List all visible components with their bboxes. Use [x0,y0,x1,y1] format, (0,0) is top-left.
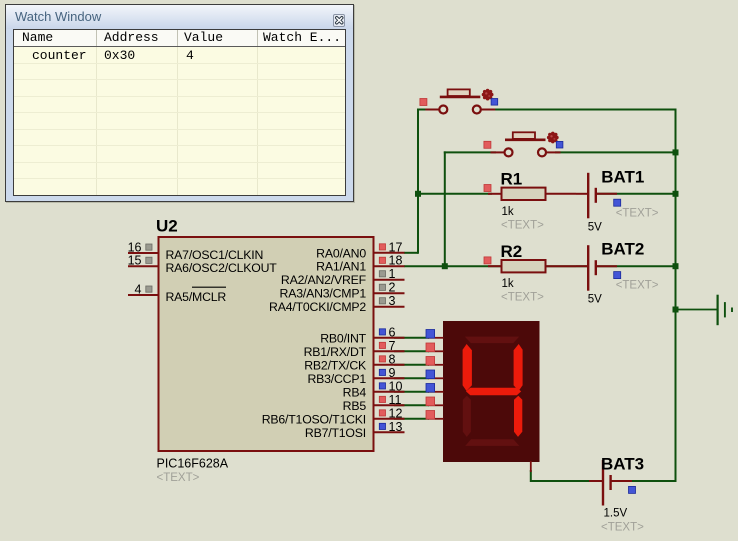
pin 2 RA3/AN3/CMP1 stub [373,292,405,294]
segment A (unlit) [465,337,519,344]
svg-text:3: 3 [389,294,396,308]
resistor R2 body [502,260,546,272]
wire R1 row horizontal [418,193,492,195]
svg-text:<TEXT>: <TEXT> [501,219,544,231]
wire pin18 to R2 row horizontal [404,265,588,267]
svg-text:2: 2 [389,281,396,295]
pin 12 RB6/T1OSO/T1CKI stub [373,418,405,420]
body column lines [96,47,97,195]
pin 11 RB5 stub [373,404,405,406]
push button SW1 left terminal [439,106,447,114]
segment E (unlit) [463,396,471,437]
resistor R1 state square [484,185,491,192]
svg-text:<TEXT>: <TEXT> [157,472,200,484]
pin 7 RB1/RX/DT stub [373,350,405,352]
pin 16 state indicator [146,244,152,250]
push button SW1 actuator [482,89,494,101]
pin 9 RB3/CCP1 stub [373,377,405,379]
pin 17 RA0/AN0 stub [373,252,405,254]
pin 15 state indicator [146,257,152,263]
svg-text:1k: 1k [502,278,514,290]
wire RB6 to display segment pin [394,418,429,420]
push button SW2 cap [513,132,535,139]
wire button1 right to trunk [490,109,677,111]
svg-text:RA0/AN0: RA0/AN0 [316,246,366,260]
push button SW2 contact bar [505,139,546,142]
svg-text:BAT2: BAT2 [601,240,644,259]
battery BAT2 long plate [587,245,589,291]
resistor R2 state square [484,257,491,264]
watch window dialog [5,4,354,202]
push button SW2 left stub [491,151,505,153]
row separator lines [14,63,345,64]
node junction at R1 row / pin17 riser [415,191,421,197]
svg-text:<TEXT>: <TEXT> [501,292,544,304]
svg-text:RA3/AN3/CMP1: RA3/AN3/CMP1 [280,287,367,301]
pin 6 state indicator [379,329,385,335]
battery BAT3 right lead [611,480,632,482]
table header row [14,30,345,47]
node junction trunk/BAT2 row [673,263,679,269]
battery BAT1 state square [614,199,621,206]
svg-text:4: 4 [135,283,142,297]
svg-text:PIC16F628A: PIC16F628A [157,457,229,471]
push button SW1 right terminal [473,106,481,114]
wire RB2 to display segment pin [394,364,429,366]
svg-text:17: 17 [389,240,403,254]
wire right trunk vertical [675,109,677,483]
pin 16 RA7/OSC1/CLKIN stub [128,252,158,254]
svg-text:RA4/T0CKI/CMP2: RA4/T0CKI/CMP2 [269,300,366,314]
svg-text:RB3/CCP1: RB3/CCP1 [307,372,366,386]
svg-text:RB6/T1OSO/T1CKI: RB6/T1OSO/T1CKI [262,412,366,426]
MCLR overline [192,286,226,288]
svg-text:RB7/T1OSI: RB7/T1OSI [305,426,366,440]
svg-text:<TEXT>: <TEXT> [616,280,659,292]
ground symbol (rotated) [718,295,732,326]
battery BAT2 left lead [576,265,588,267]
svg-text:RB0/INT: RB0/INT [320,331,366,345]
battery BAT3 left lead [589,480,603,482]
wire BAT1 to trunk [597,193,677,195]
svg-text:5V: 5V [588,221,602,233]
wire RB4 to display segment pin [394,391,429,393]
svg-text:RB4: RB4 [343,385,367,399]
battery BAT2 right lead [596,265,617,267]
push button SW2 right stub [546,151,561,153]
pin 8 state indicator [379,356,385,362]
wire ground branch [676,309,717,311]
push button 1 input state square [420,99,427,106]
resistor R2 left lead [488,265,502,267]
svg-text:RB5: RB5 [343,399,367,413]
battery BAT1 left lead [576,193,588,195]
wire RB3 to display segment pin [394,377,429,379]
pin 10 RB4 stub [373,391,405,393]
svg-text:R1: R1 [501,170,523,189]
svg-text:6: 6 [389,325,396,339]
wire RB5 to display segment pin [394,404,429,406]
svg-text:RB2/TX/CK: RB2/TX/CK [304,358,367,372]
battery BAT1 right lead [596,193,617,195]
wire display bottom pin to BAT3 row [530,470,532,482]
7-segment display body [443,321,540,462]
svg-text:13: 13 [389,420,403,434]
push button SW2 actuator [547,132,559,144]
push button SW1 cap [448,89,470,96]
svg-text:15: 15 [128,254,142,268]
watch window table [13,29,346,196]
node junction trunk/button2 row [673,149,679,155]
svg-text:RA6/OSC2/CLKOUT: RA6/OSC2/CLKOUT [166,261,278,275]
battery BAT3 state square [629,486,636,493]
svg-text:1k: 1k [502,206,514,218]
pin 13 state indicator [379,423,385,429]
pin 13 RB7/T1OSI stub [373,431,405,433]
pin 4 RA5/MCLR stub [128,294,158,296]
pin 10 state indicator [379,383,385,389]
pin 17 state indicator [379,244,385,250]
pin 8 RB2/TX/CK stub [373,364,405,366]
battery BAT1 long plate [587,173,589,219]
pin 4 state indicator [146,286,152,292]
wire pin17 to button1 left vertical [404,252,418,254]
segment F (lit) [463,344,472,391]
svg-text:<TEXT>: <TEXT> [616,207,659,219]
watch window title bar [6,5,353,29]
battery BAT3 long plate [602,460,604,506]
IC U2 PIC16F628A body [159,237,374,451]
svg-text:1.5V: 1.5V [604,508,628,520]
pin 6 RB0/INT stub [373,337,405,339]
svg-text:R2: R2 [501,242,523,261]
push button SW1 right stub [481,109,496,111]
svg-text:7: 7 [389,339,396,353]
wire RB0 to display segment pin [394,337,429,339]
wire BAT3 row horizontal [531,480,590,482]
svg-text:<TEXT>: <TEXT> [601,522,644,534]
resistor R1 right lead [546,193,577,195]
svg-text:5V: 5V [588,294,602,306]
battery BAT1 short plate [595,188,597,203]
watch row: counter [32,48,87,64]
push button 2 input state square [484,141,491,148]
svg-text:U2: U2 [156,217,178,236]
svg-text:11: 11 [389,393,402,407]
resistor R1 left lead [488,193,502,195]
battery BAT2 state square [614,272,621,279]
pin 12 state indicator [379,410,385,416]
pin 1 state indicator [379,271,385,277]
svg-text:RA1/AN1: RA1/AN1 [316,260,366,274]
resistor R1 body [502,188,546,200]
node junction trunk/ground branch [673,307,679,313]
svg-text:RA5/MCLR: RA5/MCLR [166,290,227,304]
segment G (lit) [466,388,521,396]
segment C (lit) [514,396,522,437]
svg-text:RB1/RX/DT: RB1/RX/DT [304,345,367,359]
battery BAT2 short plate [595,260,597,275]
wire RB1 to display segment pin [394,350,429,352]
svg-text:16: 16 [128,241,142,255]
wire button2 left vertical riser [444,151,446,267]
pin 3 RA4/T0CKI/CMP2 stub [373,306,405,308]
display-side state squares [426,330,435,339]
node junction at pin18 / button2 riser [442,263,448,269]
push button SW1 logic state square [491,99,498,106]
svg-text:RA7/OSC1/CLKIN: RA7/OSC1/CLKIN [166,248,264,262]
pin 18 RA1/AN1 stub [373,265,405,267]
svg-text:1: 1 [389,267,396,281]
push button SW2 left terminal [505,148,513,156]
pin 18 state indicator [379,257,385,263]
pin 11 state indicator [379,396,385,402]
svg-text:18: 18 [389,254,403,268]
pin 7 state indicator [379,342,385,348]
segment D (unlit) [465,439,519,446]
7-segment display pins left [428,337,444,339]
pin 2 state indicator [379,284,385,290]
pin 9 state indicator [379,369,385,375]
push button SW1 left stub [425,109,439,111]
pin 1 RA2/AN2/VREF stub [373,279,405,281]
push button SW2 logic state square [556,141,563,148]
resistor R2 right lead [546,265,577,267]
wire button2 right to trunk [555,151,677,153]
node junction trunk/BAT1 row [673,191,679,197]
battery BAT3 short plate [609,475,611,490]
watch window close button [333,14,346,27]
push button SW1 contact bar [440,96,481,99]
pin 15 RA6/OSC2/CLKOUT stub [128,265,158,267]
svg-text:10: 10 [389,379,403,393]
push button SW2 right terminal [538,148,546,156]
7-segment display bottom pin [530,461,532,472]
svg-text:9: 9 [389,366,396,380]
pin 3 state indicator [379,298,385,304]
segment B (lit) [514,344,523,391]
svg-text:BAT3: BAT3 [601,455,644,474]
wire BAT2 to trunk [597,265,677,267]
svg-text:12: 12 [389,406,403,420]
svg-text:BAT1: BAT1 [601,167,644,186]
svg-text:8: 8 [389,352,396,366]
svg-text:RA2/AN2/VREF: RA2/AN2/VREF [281,273,367,287]
